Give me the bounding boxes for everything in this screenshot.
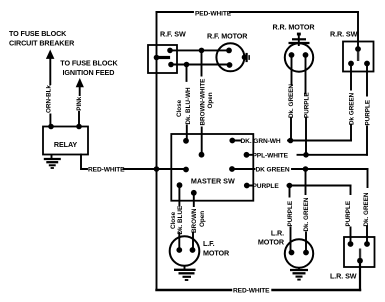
svg-text:Dk. GREEN: Dk. GREEN [363,192,370,226]
svg-text:MASTER SW: MASTER SW [191,176,235,185]
svg-text:TO FUSE BLOCK: TO FUSE BLOCK [9,29,67,38]
junction R.R. motor green [288,138,294,144]
relay [43,124,88,155]
wire R.F. SW to motor (upper) [170,49,229,51]
svg-text:L.R.: L.R. [271,229,284,238]
svg-text:BROWN-WHITE: BROWN-WHITE [199,79,206,126]
ground (relay) [44,155,61,169]
svg-text:L.R. SW: L.R. SW [330,272,357,281]
wire DK. BLUE (L.F. close) [178,185,180,250]
wire top bus PED-WHITE [157,11,359,13]
junction BROWN-WHITE tap [199,48,205,54]
switch R.R. SW [330,30,374,72]
svg-text:IGNITION FEED: IGNITION FEED [63,68,115,77]
junction R.R. motor purple [303,152,309,158]
svg-text:R.F. SW: R.F. SW [160,30,186,39]
wire L.R. SW to bottom bus [359,260,361,290]
svg-text:Dk. BLUE: Dk. BLUE [177,206,184,235]
motor R.F. MOTOR [207,32,250,72]
wire DK. GREEN (L.R. motor) [305,169,308,253]
svg-text:DK. GRN-WH: DK. GRN-WH [241,138,281,145]
motor L.R. MOTOR [258,229,313,268]
wire master feed from bus [157,168,187,170]
junction L.R. motor purple [287,183,293,189]
svg-text:R.R. SW: R.R. SW [330,30,358,39]
svg-text:ORN-BLk: ORN-BLk [46,85,53,113]
svg-text:RELAY: RELAY [54,140,78,149]
svg-text:PURPLE: PURPLE [304,92,311,118]
svg-text:RED-WHITE: RED-WHITE [233,287,270,294]
svg-text:PURPLE: PURPLE [253,183,280,190]
arrow to circuit breaker [46,50,55,59]
wire BROWN-WHITE (R.F. open) [201,50,203,154]
svg-text:Dk GREEN: Dk GREEN [349,92,356,125]
wire PURPLE (R.R. motor) [305,55,308,155]
wire left bus RED-WHITE [156,12,158,290]
wire PURPLE (to L.R.) [247,185,351,187]
wire DK. BLU-WH (R.F. close) [186,65,188,141]
svg-text:PURPLE: PURPLE [287,201,294,227]
svg-text:TO FUSE BLOCK: TO FUSE BLOCK [60,59,118,68]
junction DK. BLU-WH tap [184,62,190,68]
wire PURPLE (R.R. SW) [366,64,368,155]
switch MASTER SW [171,134,253,201]
svg-text:Dk. BLU-WH: Dk. BLU-WH [185,87,192,125]
motor L.F. MOTOR [170,236,230,266]
switch R.F. SW [148,30,186,73]
wire DK. GRN-WH [232,140,351,142]
ground (L.F. motor) [174,266,196,280]
motor R.R. MOTOR [273,23,316,72]
wire DK GREEN (R.R. SW) [350,64,352,141]
svg-text:PPL-WHITE: PPL-WHITE [253,153,289,160]
svg-text:R.F. MOTOR: R.F. MOTOR [207,32,248,41]
svg-text:RED-WHITE: RED-WHITE [88,167,125,174]
svg-text:Close: Close [176,99,183,117]
svg-text:MOTOR: MOTOR [258,238,285,247]
svg-text:MOTOR: MOTOR [203,249,230,258]
label TO FUSE BLOCK CIRCUIT BREAKER [9,29,75,48]
svg-text:BROWN: BROWN [191,208,198,233]
arrow to ignition feed [76,78,84,87]
wire PPL-WHITE [247,154,368,156]
svg-text:Dk. GREEN: Dk. GREEN [303,197,310,231]
svg-text:DK GREEN: DK GREEN [256,167,290,174]
wire PURPLE (L.R. motor) [290,186,291,253]
junction bus / RED-WHITE [154,166,160,172]
wire DK GREEN (to L.R.) [232,168,368,170]
wire bottom bus RED-WHITE [157,289,361,291]
wire DK. GREEN (R.R. motor) [290,55,293,141]
wire R.F. SW to motor (lower) [171,64,230,66]
wire PINK [78,86,81,127]
wire ORN-BLK [49,57,51,127]
junction L.R. motor green [303,166,309,172]
svg-text:PURPLE: PURPLE [364,100,371,126]
svg-text:PURPLE: PURPLE [345,201,352,227]
svg-text:Close: Close [170,211,177,229]
wire BROWN (L.F. open) [192,193,195,250]
svg-text:L.F.: L.F. [203,239,215,248]
ground (R.R. motor, inverted) [289,33,310,46]
svg-text:Open: Open [207,92,214,108]
svg-text:PINk: PINk [76,96,83,110]
ground (L.R. motor) [290,268,308,280]
label TO FUSE BLOCK IGNITION FEED [60,59,118,77]
svg-text:CIRCUIT BREAKER: CIRCUIT BREAKER [9,39,75,48]
wire PURPLE (L.R. SW) [350,186,352,245]
wire RED-WHITE relay output [81,155,186,170]
svg-text:PED-WHITE: PED-WHITE [195,10,232,17]
wire DK. GREEN (L.R. SW) [366,169,369,244]
wire R.R. SW feed drop [357,12,359,46]
switch L.R. SW [330,237,375,281]
svg-text:Dk. GREEN: Dk. GREEN [288,84,295,118]
svg-text:R.R. MOTOR: R.R. MOTOR [273,23,316,32]
svg-text:Open: Open [199,211,206,227]
